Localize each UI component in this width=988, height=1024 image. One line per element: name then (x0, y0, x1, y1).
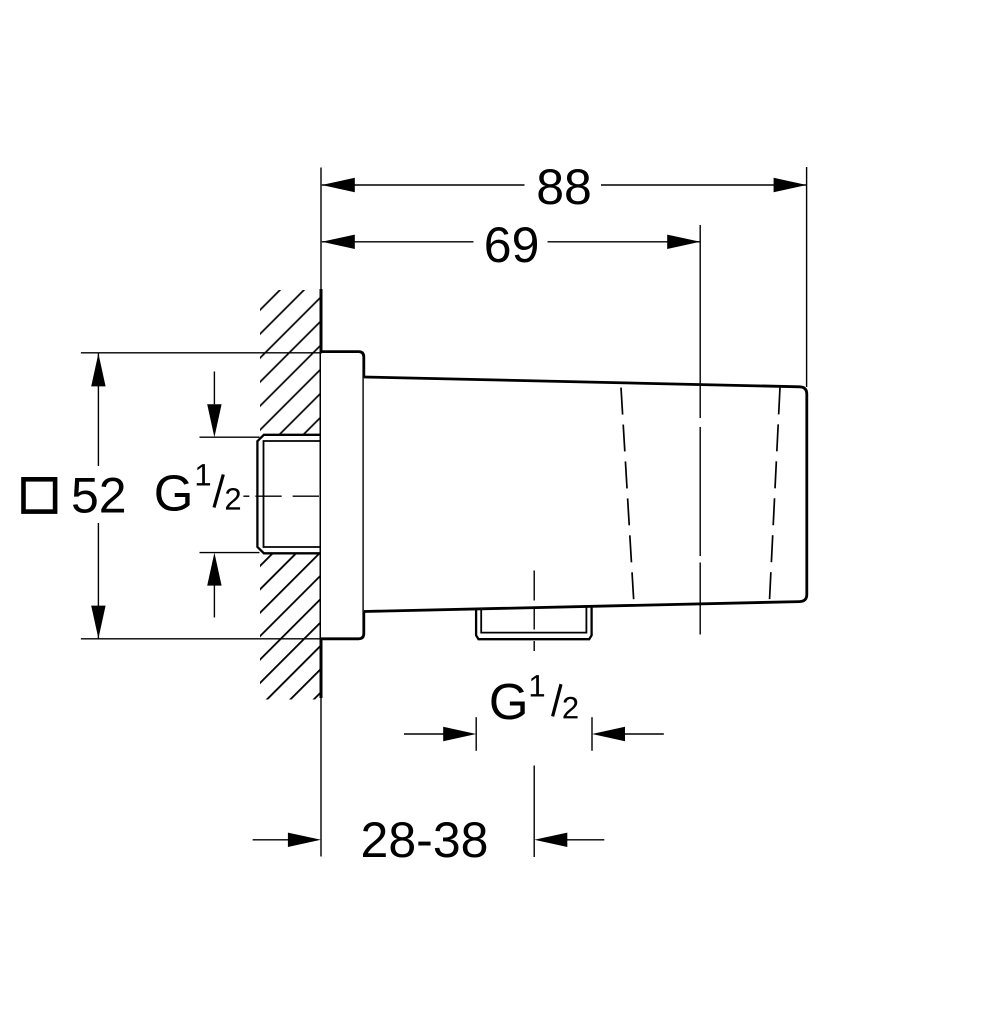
dimension 52 line (97, 353, 99, 638)
thread height extension ticks (200, 437, 260, 552)
svg-text:G: G (489, 673, 529, 730)
main conical body (364, 377, 807, 612)
extension line right for 88 (x=806.6) (806, 167, 808, 387)
svg-text:28-38: 28-38 (361, 812, 489, 868)
hidden cone edge right (dashed) (769, 387, 780, 602)
label G 1/2 bottom: fraction slash (553, 684, 561, 716)
G1/2 bottom arrow right (622, 733, 664, 735)
arrow 69 left (322, 235, 355, 249)
label G 1/2 left: superscript 1 (197, 464, 210, 485)
svg-text:52: 52 (71, 467, 127, 523)
dimension G1/2 bottom: extension ticks (476, 717, 592, 751)
arrow 52 bottom (91, 606, 105, 639)
wall hatching upper (260, 290, 321, 435)
square symbol (24, 479, 56, 511)
wall hatching lower (260, 554, 321, 700)
wall surface edge (320, 289, 323, 698)
arrow 69 right (667, 235, 700, 249)
outlet nipple outer (476, 605, 591, 639)
inlet fitting inner thread lines (264, 441, 321, 547)
label G 1/2 bottom: subscript 2 (563, 697, 577, 719)
G1/2 bottom arrow left (404, 733, 446, 735)
inlet fitting G1/2 outer (behind wall) (257, 435, 320, 554)
outlet centerline (x=534.2) (533, 571, 535, 858)
extension/centerline for 69 (x=700.2) (699, 225, 701, 635)
arrow 88 right (774, 178, 807, 192)
arrow 52 top (91, 353, 105, 386)
extension lines for 52 (81, 353, 322, 639)
svg-text:G: G (154, 464, 194, 521)
dimension 28-38 arrow right (564, 839, 604, 841)
dimension 28-38 arrow left (253, 839, 291, 841)
arrow 88 left (322, 178, 355, 192)
label G 1/2 bottom: superscript 1 (531, 675, 544, 696)
dimension 88 line (322, 184, 807, 186)
thread dim arrow down (213, 372, 215, 405)
outlet nipple inner thread lines (481, 605, 586, 632)
extension line below wall (left, x=321) (320, 698, 322, 857)
hidden cone edge left (dashed) (621, 388, 634, 606)
svg-text:88: 88 (536, 159, 592, 215)
extension line above wall (left, x=321) (320, 168, 322, 291)
wall plate flange (321, 352, 364, 639)
dimension 69 line (322, 241, 700, 243)
thread dim arrow up (213, 585, 215, 617)
label G 1/2 left: subscript 2 (226, 488, 240, 510)
inlet centerline (243, 495, 341, 497)
svg-text:69: 69 (484, 217, 540, 273)
label G 1/2 left: fraction slash (214, 475, 223, 508)
